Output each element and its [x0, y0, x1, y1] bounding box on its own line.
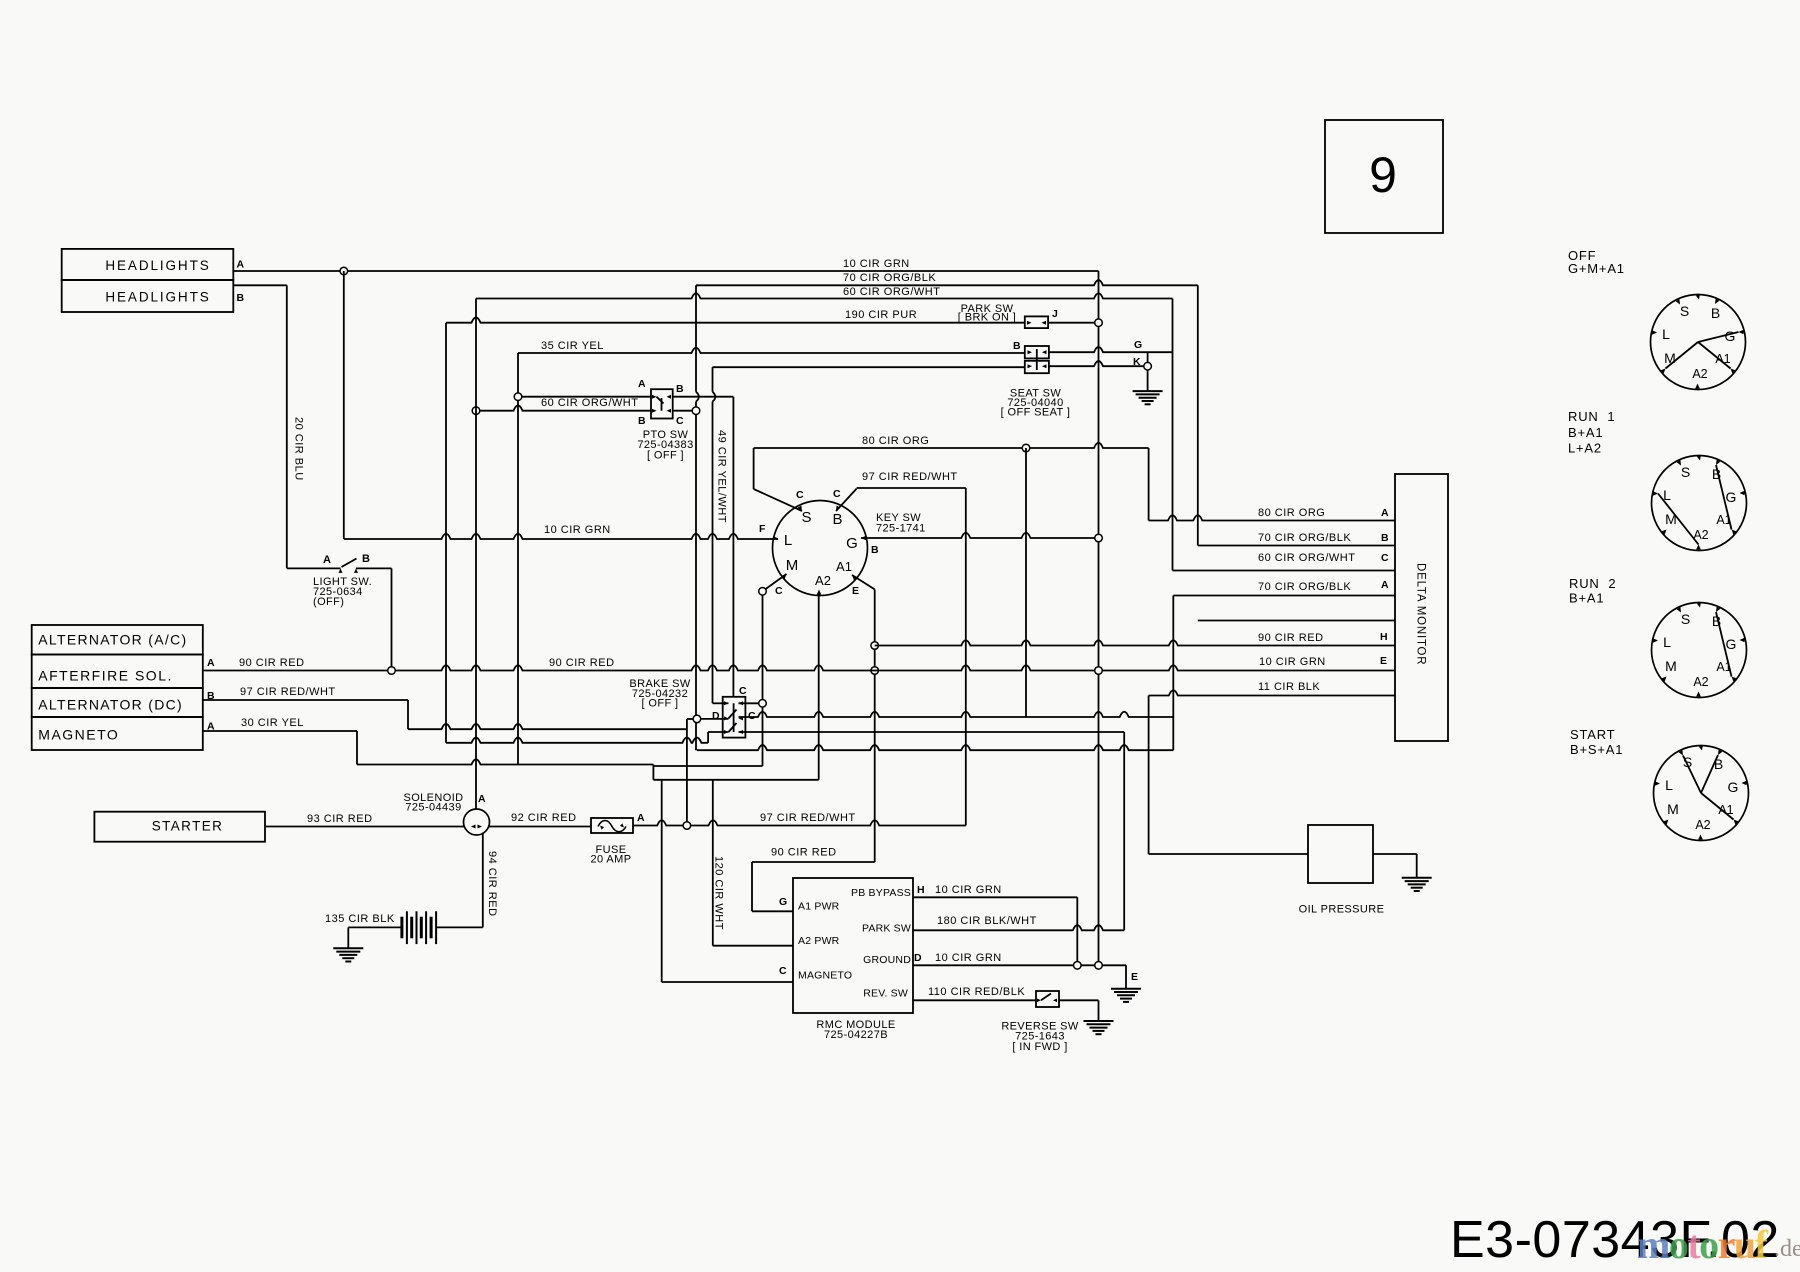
svg-text:94 CIR RED: 94 CIR RED — [486, 851, 498, 917]
wire 97 CIR RED/WHT from fuse — [633, 820, 966, 825]
svg-text:L+A2: L+A2 — [1568, 441, 1602, 456]
svg-text:9: 9 — [1369, 147, 1397, 203]
svg-text:G: G — [1725, 328, 1736, 344]
svg-text:B: B — [1711, 305, 1720, 321]
key switch contact G — [861, 536, 866, 540]
svg-text:70 CIR ORG/BLK: 70 CIR ORG/BLK — [843, 272, 936, 284]
switch BRAKE SW component — [723, 697, 746, 738]
svg-text:A2: A2 — [815, 573, 831, 588]
wire delta B row 70 CIR ORG/BLK — [1198, 545, 1395, 547]
wire to RMC A1 PWR — [752, 910, 793, 912]
node junction 10 CIR GRN drop / ground — [1095, 962, 1103, 970]
wire 94 CIR RED riser — [482, 834, 484, 928]
component box HEADLIGHTS B — [62, 280, 234, 312]
svg-text:[ IN FWD ]: [ IN FWD ] — [1012, 1041, 1067, 1053]
svg-text:90 CIR RED: 90 CIR RED — [239, 657, 305, 669]
wire light sw B drop — [391, 568, 393, 667]
wire delta row4 70 CIR ORG/BLK — [1173, 595, 1395, 597]
svg-text:A: A — [1381, 507, 1389, 519]
figure number box 9 — [1325, 120, 1443, 233]
svg-text:60 CIR ORG/WHT: 60 CIR ORG/WHT — [541, 397, 638, 409]
svg-text:90 CIR RED: 90 CIR RED — [549, 657, 615, 669]
wire RMC PB BYPASS 10 CIR GRN — [913, 896, 1077, 898]
key position diagram START circle — [1654, 746, 1749, 841]
ground (seat switch) — [1133, 390, 1163, 392]
svg-text:A: A — [207, 657, 215, 669]
svg-text:A: A — [478, 793, 486, 805]
svg-text:D: D — [914, 952, 922, 964]
svg-text:G: G — [779, 896, 787, 908]
component box RMC MODULE — [793, 878, 913, 1013]
wire delta A row 80 CIR ORG — [1149, 515, 1395, 520]
wire 70 CIR ORG/BLK top — [696, 280, 1198, 285]
wire 92 CIR RED — [490, 826, 592, 828]
wire RMC magneto pin — [662, 981, 793, 983]
wire key M drop x762.5 — [762, 595, 764, 700]
wire pto A — [518, 396, 651, 398]
svg-text:L: L — [1663, 634, 1671, 650]
wire 60 CIR ORG/WHT top — [476, 293, 1173, 298]
component box OIL PRESSURE — [1308, 825, 1373, 883]
svg-text:B: B — [871, 544, 879, 556]
component box DELTA MONITOR — [1395, 474, 1448, 741]
wire solenoid riser 60 CIR — [475, 299, 477, 810]
wire 30 CIR YEL from magneto — [203, 730, 357, 732]
svg-text:S: S — [1680, 303, 1689, 319]
svg-text:97 CIR RED/WHT: 97 CIR RED/WHT — [862, 471, 958, 483]
watermark motoruf.de — [1637, 1222, 1800, 1267]
svg-text:A: A — [323, 554, 331, 566]
fuse component — [591, 818, 633, 833]
wire oil pressure to ground — [1373, 853, 1417, 855]
svg-text:B: B — [1381, 532, 1389, 544]
wire 49 CIR YEL/WHT to seat switch — [713, 366, 1025, 368]
svg-text:G: G — [846, 535, 858, 552]
svg-text:PB BYPASS: PB BYPASS — [851, 887, 911, 899]
key position START connection center-S — [1683, 756, 1701, 794]
wire 10 CIR GRN to key L — [344, 534, 778, 539]
wire lower 97 net line brake D to delta drop — [697, 745, 1173, 750]
wire PB bypass drop — [1076, 897, 1078, 962]
svg-text:C: C — [775, 585, 783, 597]
svg-text:110 CIR RED/BLK: 110 CIR RED/BLK — [928, 986, 1025, 998]
svg-text:30 CIR YEL: 30 CIR YEL — [241, 717, 304, 729]
svg-text:C: C — [676, 415, 684, 427]
svg-text:OIL PRESSURE: OIL PRESSURE — [1299, 904, 1385, 916]
wire RMC GROUND 10 CIR GRN — [913, 964, 1126, 966]
node junction pto C / 70 CIR ORG/BLK riser — [692, 407, 700, 415]
wire drop 190 CIR PUR x446 — [445, 323, 447, 743]
wire RMC REV SW 110 CIR RED/BLK — [913, 999, 1036, 1001]
node junction 60 CIR / solenoid riser — [472, 407, 480, 415]
wire 80 CIR ORG from key S — [754, 489, 802, 511]
wire K to ground — [1147, 370, 1149, 392]
svg-text:E: E — [1131, 971, 1138, 983]
svg-text:70 CIR ORG/BLK: 70 CIR ORG/BLK — [1258, 581, 1351, 593]
ground (oil pressure) — [1402, 877, 1432, 879]
svg-text:L: L — [784, 532, 792, 549]
svg-text:(OFF): (OFF) — [313, 596, 344, 608]
svg-text:10 CIR GRN: 10 CIR GRN — [935, 952, 1002, 964]
wire pto C to junction — [673, 410, 693, 412]
switch PTO SW component — [651, 389, 673, 418]
wire key A1 drop x874.7 — [874, 589, 876, 642]
svg-text:92 CIR RED: 92 CIR RED — [511, 812, 577, 824]
component box AFTERFIRE SOL. — [32, 655, 203, 689]
svg-text:M: M — [1665, 511, 1677, 527]
key switch contact L — [773, 536, 778, 541]
wire 20 CIR BLU vertical — [286, 285, 288, 568]
svg-text:GROUND: GROUND — [863, 954, 911, 966]
wire ground drop E — [1125, 965, 1127, 988]
component box ALTERNATOR (DC) — [32, 688, 203, 717]
wire 97 riser to brake D — [686, 719, 688, 822]
component box STARTER — [94, 812, 265, 842]
svg-text:RUN 1: RUN 1 — [1568, 409, 1615, 424]
wire brake top-left stub to 49 CIR riser — [713, 702, 729, 704]
svg-text:MAGNETO: MAGNETO — [38, 727, 119, 743]
svg-text:725-04439: 725-04439 — [405, 802, 461, 814]
key position diagram RUN2 circle — [1652, 603, 1747, 698]
svg-text:725-04227B: 725-04227B — [824, 1029, 888, 1041]
svg-text:A: A — [638, 378, 646, 390]
svg-text:[ OFF SEAT ]: [ OFF SEAT ] — [1001, 406, 1071, 418]
svg-text:11 CIR BLK: 11 CIR BLK — [1258, 681, 1320, 693]
svg-text:motoruf: motoruf — [1637, 1222, 1769, 1267]
wire 30 CIR YEL lower run — [357, 759, 653, 764]
wire 49 CIR YEL/WHT vertical — [712, 367, 714, 392]
wire delta row8 11 CIR BLK — [1149, 690, 1395, 695]
key position diagram RUN1 circle — [1652, 456, 1747, 551]
svg-text:C: C — [748, 710, 756, 722]
svg-text:ALTERNATOR (DC): ALTERNATOR (DC) — [38, 697, 183, 713]
key position OFF connection center-M — [1666, 342, 1699, 369]
key switch contact M — [781, 574, 786, 579]
svg-text:PARK SW: PARK SW — [862, 923, 911, 935]
svg-text:A: A — [1381, 579, 1389, 591]
svg-text:F: F — [759, 523, 766, 535]
svg-text:C: C — [833, 488, 841, 500]
svg-text:A: A — [237, 259, 245, 271]
wire 97 CIR RED/WHT from key B — [836, 489, 857, 511]
svg-text:L: L — [1665, 777, 1673, 793]
svg-text:80 CIR ORG: 80 CIR ORG — [862, 435, 929, 447]
node junction 35 CIR YEL / pto A — [514, 393, 522, 401]
wire brake D stub — [700, 718, 728, 720]
switch SEAT SW component upper — [1025, 346, 1049, 358]
svg-text:97 CIR RED/WHT: 97 CIR RED/WHT — [240, 686, 336, 698]
svg-text:A2: A2 — [1692, 367, 1707, 381]
component box HEADLIGHTS A — [62, 249, 234, 280]
wire 35 CIR YEL — [518, 348, 1025, 353]
wire 97 CIR RED/WHT from alternator DC — [203, 699, 408, 701]
wire key A2 to magneto net — [653, 779, 818, 781]
svg-text:10 CIR GRN: 10 CIR GRN — [544, 524, 611, 536]
wire delta C row 60 CIR ORG/WHT — [1173, 570, 1396, 572]
svg-text:S: S — [801, 509, 811, 526]
svg-text:A: A — [637, 812, 645, 824]
svg-text:M: M — [1665, 658, 1677, 674]
svg-text:M: M — [786, 557, 799, 574]
node junction key G / 10 CIR GRN drop — [1095, 534, 1103, 542]
key switch contact S — [798, 506, 802, 512]
solenoid circle — [464, 809, 490, 835]
wire key G line — [861, 533, 1099, 538]
svg-text:E: E — [1380, 655, 1387, 667]
wire riser x696 pto C to 70 CIR ORG/BLK and down to brake D — [695, 285, 697, 392]
svg-text:10 CIR GRN: 10 CIR GRN — [843, 258, 910, 270]
svg-text:B: B — [638, 415, 646, 427]
wire brake top-right to M drop junction — [739, 702, 760, 704]
svg-text:J: J — [1052, 308, 1058, 320]
key position START connection center-A1 — [1701, 793, 1734, 820]
svg-text:STARTER: STARTER — [152, 819, 224, 834]
svg-text:70 CIR ORG/BLK: 70 CIR ORG/BLK — [1258, 532, 1351, 544]
svg-text:60 CIR ORG/WHT: 60 CIR ORG/WHT — [843, 286, 940, 298]
wire seat sw G to 60 CIR drop — [1049, 347, 1173, 352]
svg-text:B+A1: B+A1 — [1569, 591, 1604, 606]
wire 80 CIR ORG drop to delta A — [1148, 448, 1150, 521]
svg-text:E: E — [852, 585, 859, 597]
svg-text:97 CIR RED/WHT: 97 CIR RED/WHT — [760, 812, 856, 824]
wire pto B top to risers — [673, 396, 734, 398]
svg-text:10 CIR GRN: 10 CIR GRN — [1259, 656, 1326, 668]
key switch contact A2 — [817, 590, 821, 595]
svg-text:M: M — [1664, 350, 1676, 366]
svg-text:20 AMP: 20 AMP — [591, 854, 632, 866]
svg-text:G: G — [1134, 339, 1142, 351]
wire key M to magneto net — [653, 765, 762, 767]
svg-text:B: B — [1013, 340, 1021, 352]
key position RUN2 connection B-A1 — [1716, 612, 1732, 677]
svg-text:20 CIR BLU: 20 CIR BLU — [293, 417, 305, 481]
node junction PB bypass / ground — [1074, 962, 1082, 970]
svg-text:B: B — [1714, 756, 1723, 772]
svg-text:C: C — [739, 685, 747, 697]
wire RMC PARK SW 180 CIR BLK/WHT — [913, 925, 1124, 930]
svg-text:60 CIR ORG/WHT: 60 CIR ORG/WHT — [1258, 552, 1355, 564]
svg-text:90 CIR RED: 90 CIR RED — [771, 847, 837, 859]
svg-text:120 CIR WHT: 120 CIR WHT — [713, 856, 725, 930]
battery symbol — [400, 917, 403, 939]
wire K stub from G wire — [1147, 352, 1149, 363]
svg-text:K: K — [1133, 356, 1141, 368]
wire 190 CIR PUR — [446, 317, 1025, 322]
wire delta H row 90 CIR RED — [875, 640, 1395, 645]
component box MAGNETO — [32, 717, 203, 750]
wire 90 CIR RED A1 jog — [752, 861, 875, 863]
wire 93 CIR RED — [266, 826, 465, 828]
svg-text:G: G — [1726, 489, 1737, 505]
wire 180 CIR BLK/WHT drop x1124.2 — [1123, 732, 1125, 930]
svg-text:B+A1: B+A1 — [1568, 425, 1603, 440]
wire 10 CIR GRN drop mid x1098.5 — [1098, 326, 1100, 534]
wire key M diagonal — [763, 574, 787, 591]
svg-text:B: B — [676, 383, 684, 395]
node junction light sw drop / 90 CIR RED — [388, 667, 396, 675]
svg-text:B: B — [832, 511, 842, 528]
svg-text:49 CIR YEL/WHT: 49 CIR YEL/WHT — [716, 430, 728, 523]
wire key A1 diagonal — [852, 575, 875, 589]
ground (battery) — [333, 947, 363, 949]
svg-text:H: H — [917, 884, 925, 896]
wire drop 70 CIR ORG/BLK x1197.8 — [1197, 285, 1199, 545]
svg-text:90 CIR RED: 90 CIR RED — [1258, 632, 1324, 644]
svg-text:180 CIR BLK/WHT: 180 CIR BLK/WHT — [937, 915, 1037, 927]
svg-text:RUN 2: RUN 2 — [1569, 576, 1616, 591]
wire 97 CIR RED/WHT drop x965.8 — [965, 488, 967, 826]
svg-text:10 CIR GRN: 10 CIR GRN — [935, 884, 1002, 896]
ground (RMC E) — [1111, 988, 1141, 990]
wire oil pressure to 11 CIR BLK riser — [1149, 853, 1308, 855]
switch LIGHT SW — [287, 567, 341, 569]
wire drop 10 CIR GRN x1098 — [1098, 271, 1100, 319]
svg-text:B: B — [237, 292, 245, 304]
svg-text:HEADLIGHTS: HEADLIGHTS — [105, 290, 210, 305]
svg-text:M: M — [1667, 801, 1679, 817]
ground (reverse sw) — [1084, 1020, 1114, 1022]
svg-text:A1: A1 — [836, 559, 852, 574]
wire drop 35 CIR YEL x518 — [517, 353, 519, 765]
wire brake bottom-right long line 180 CIR BLK/WHT — [739, 731, 1125, 733]
svg-text:135 CIR BLK: 135 CIR BLK — [325, 913, 395, 925]
svg-text:725-1741: 725-1741 — [876, 522, 926, 534]
svg-text:ALTERNATOR (A/C): ALTERNATOR (A/C) — [38, 632, 187, 648]
wire key A2 drop x818.7 — [818, 593, 820, 780]
svg-text:REV. SW: REV. SW — [863, 988, 908, 1000]
svg-text:L: L — [1662, 326, 1670, 342]
svg-text:DELTA MONITOR: DELTA MONITOR — [1415, 563, 1427, 665]
node junction fuse / brake riser — [683, 822, 691, 830]
svg-text:MAGNETO: MAGNETO — [798, 970, 852, 982]
wire 80 CIR ORG drop to brake C line — [1025, 448, 1027, 717]
wire magneto drop to RMC — [661, 780, 663, 982]
component box ALTERNATOR (A/C) — [32, 625, 203, 655]
wire magneto net jog x653.4 — [652, 765, 654, 780]
svg-text:[ BRK ON ]: [ BRK ON ] — [958, 312, 1016, 324]
node junction brake C top — [759, 700, 767, 708]
svg-text:A1 PWR: A1 PWR — [798, 901, 840, 913]
svg-text:HEADLIGHTS: HEADLIGHTS — [105, 258, 210, 273]
wire park sw to junction — [1048, 322, 1095, 324]
svg-text:A2 PWR: A2 PWR — [798, 935, 840, 947]
svg-text:H: H — [1380, 631, 1388, 643]
key position diagram OFF circle — [1651, 295, 1746, 390]
wire drop 60 CIR ORG/WHT x1172.5 — [1172, 299, 1174, 571]
svg-text:.de: .de — [1774, 1236, 1800, 1262]
wire 60 CIR ORG/WHT to pto bottom — [476, 405, 651, 410]
key position START connection center-B — [1701, 755, 1718, 793]
wire 190 CIR PUR lower run — [446, 738, 708, 743]
key switch contact A1 — [852, 575, 857, 580]
wire reverse sw to ground — [1059, 999, 1099, 1001]
svg-text:AFTERFIRE SOL.: AFTERFIRE SOL. — [38, 668, 173, 684]
node key M junction circle — [759, 588, 767, 596]
svg-text:START: START — [1570, 727, 1615, 742]
svg-text:[ OFF ]: [ OFF ] — [647, 449, 684, 461]
wire delta row5 stub — [1198, 620, 1395, 622]
svg-text:G: G — [1726, 636, 1737, 652]
svg-text:D: D — [712, 710, 720, 722]
svg-text:B+S+A1: B+S+A1 — [1570, 742, 1623, 757]
key switch KEY SW circle — [773, 501, 868, 596]
wire brake middle-right line to 70 CIR ORG/BLK drop — [739, 712, 1174, 717]
key position OFF connection center-G — [1698, 332, 1739, 342]
switch SEAT SW component lower — [1025, 361, 1049, 373]
node junction park sw / 10 CIR GRN — [1095, 319, 1103, 327]
wire long 90 CIR RED line afterfire to delta E — [203, 665, 1395, 670]
node K junction — [1144, 362, 1152, 370]
svg-text:S: S — [1681, 611, 1690, 627]
svg-text:S: S — [1681, 464, 1690, 480]
wire 10 CIR GRN headlights A to right — [233, 270, 1098, 272]
svg-text:A2: A2 — [1693, 675, 1708, 689]
svg-text:A2: A2 — [1695, 818, 1710, 832]
wire 97 CIR RED/WHT lower run — [408, 724, 687, 729]
switch REVERSE SW component — [1036, 991, 1059, 1007]
svg-text:93 CIR RED: 93 CIR RED — [307, 813, 373, 825]
svg-text:35 CIR YEL: 35 CIR YEL — [541, 340, 604, 352]
wire to RMC A2 PWR — [713, 945, 793, 947]
svg-text:190 CIR PUR: 190 CIR PUR — [845, 309, 917, 321]
wire battery ground drop — [347, 927, 349, 948]
svg-text:C: C — [779, 965, 787, 977]
svg-text:[ OFF ]: [ OFF ] — [641, 698, 678, 710]
wire riser x733.4 pto B to brake box — [732, 397, 734, 697]
wire 70 CIR ORG/BLK row4 drop — [1172, 596, 1174, 751]
key position OFF connection center-A1 — [1698, 342, 1731, 369]
seat sw actuator link — [1036, 349, 1038, 370]
key position RUN1 connection B-A1 — [1716, 465, 1732, 530]
wire battery to 94 CIR RED — [436, 926, 483, 928]
svg-text:B: B — [362, 553, 370, 565]
node junction A1 / 90 CIR RED delta H — [871, 642, 879, 650]
key switch contact B — [836, 506, 840, 512]
node junction 80 CIR ORG — [1022, 444, 1030, 452]
svg-text:G: G — [1728, 779, 1739, 795]
node junction headlights A — [340, 267, 348, 275]
node junction A1 / long line — [871, 667, 879, 675]
node junction brake D — [693, 715, 701, 723]
wire 10 CIR GRN drop x343.8 — [343, 271, 345, 539]
svg-text:C: C — [796, 489, 804, 501]
key position RUN1 connection L-A2 — [1658, 494, 1699, 545]
battery 135 CIR BLK wire — [348, 926, 402, 928]
svg-text:G+M+A1: G+M+A1 — [1568, 261, 1625, 276]
node junction 10 CIR GRN drop / delta E line — [1095, 667, 1103, 675]
wire 11 CIR BLK riser / oil pressure riser — [1148, 696, 1150, 855]
svg-text:80 CIR ORG: 80 CIR ORG — [1258, 507, 1325, 519]
wire seat sw K row — [1049, 361, 1144, 366]
wire brake bottom-left via 190 CIR PUR — [708, 731, 728, 733]
svg-text:C: C — [1381, 552, 1389, 564]
switch PARK SW component — [1025, 316, 1048, 328]
wire 120 CIR WHT drop — [712, 780, 714, 946]
wire headlights B stub — [233, 284, 286, 286]
